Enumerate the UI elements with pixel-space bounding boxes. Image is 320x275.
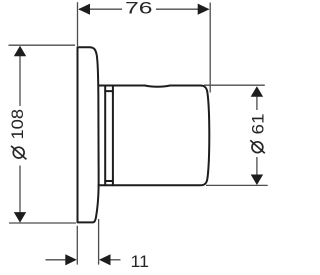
svg-text:61: 61 bbox=[249, 114, 267, 135]
svg-text:11: 11 bbox=[131, 253, 150, 271]
svg-text:76: 76 bbox=[125, 0, 153, 18]
svg-text:108: 108 bbox=[9, 109, 27, 140]
